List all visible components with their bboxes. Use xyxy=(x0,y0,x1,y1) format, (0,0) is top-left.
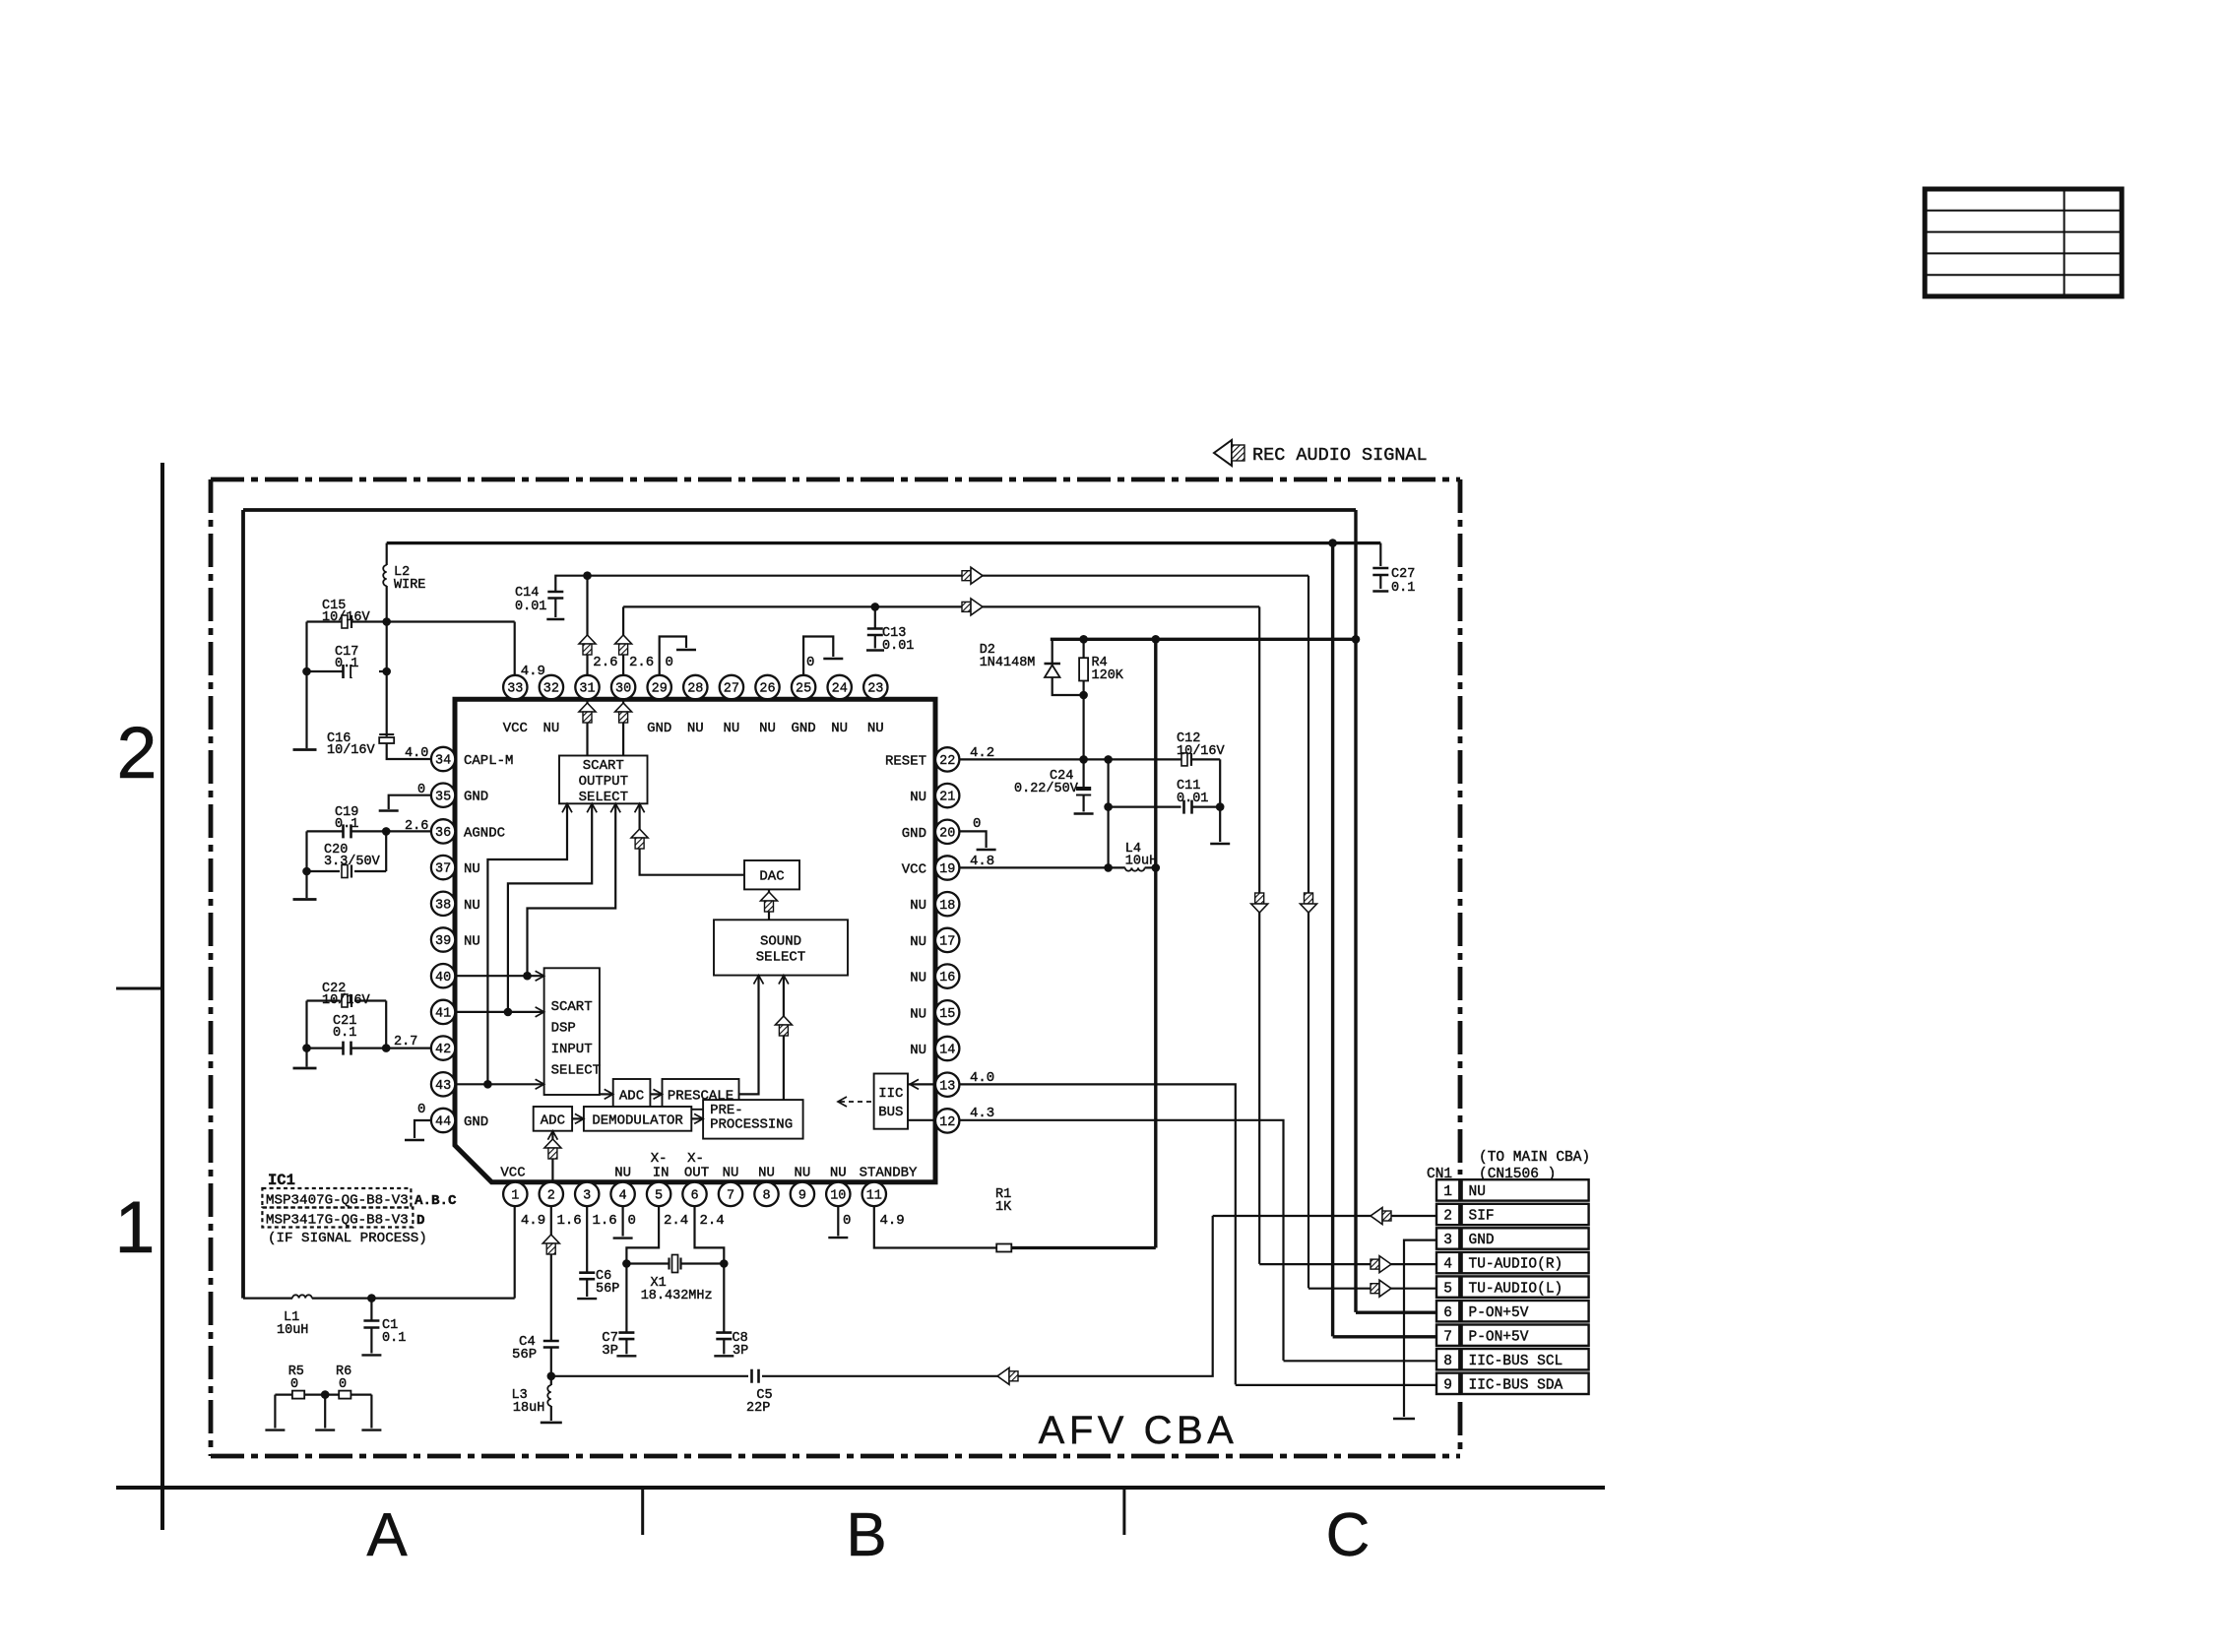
svg-text:4.8: 4.8 xyxy=(970,854,994,869)
svg-text:0: 0 xyxy=(417,783,425,797)
wire DAC to SCART OUTPUT SELECT input 4 xyxy=(640,803,744,874)
capacitor C8 3P xyxy=(716,1264,732,1355)
pin 41 xyxy=(431,1000,455,1024)
junction C12 left xyxy=(1104,755,1113,764)
wire R5 left ground stub xyxy=(274,1395,276,1429)
wire P-ON+5V rail: left edge of loop xyxy=(241,510,245,1299)
junction D2 / R4 xyxy=(1079,691,1088,700)
connector CN1 pin 8 IIC-BUS SCL xyxy=(1436,1349,1589,1369)
pin 28 xyxy=(683,675,707,699)
capacitor C20 3.3/50V xyxy=(307,831,387,877)
capacitor C15 10/16V xyxy=(340,615,387,628)
pin 6 xyxy=(682,1182,706,1206)
wire pin42 row xyxy=(386,1047,431,1048)
svg-text:SELECT: SELECT xyxy=(551,1063,601,1079)
svg-text:3: 3 xyxy=(583,1189,591,1204)
svg-text:NU: NU xyxy=(464,861,480,877)
svg-text:4.3: 4.3 xyxy=(970,1106,994,1121)
pin 21 xyxy=(935,784,959,807)
svg-text:2: 2 xyxy=(1443,1209,1452,1225)
frame column tick between zones B and C xyxy=(1122,1488,1125,1535)
pin 34 xyxy=(431,747,455,771)
svg-text:4.9: 4.9 xyxy=(521,1213,545,1229)
block ADC (demod) xyxy=(534,1107,572,1131)
wire R5/R6 middle ground stub xyxy=(324,1395,326,1429)
svg-text:17: 17 xyxy=(939,935,955,950)
junction C20 left xyxy=(302,867,311,876)
svg-text:NU: NU xyxy=(723,1166,739,1181)
svg-text:DAC: DAC xyxy=(759,869,784,885)
connector CN1 pin 7 P-ON+5V xyxy=(1436,1325,1589,1346)
IC1 part number MSP3407G (dashed box) xyxy=(262,1188,411,1209)
ground C7 xyxy=(616,1355,636,1357)
wire pin36 AGNDC row xyxy=(386,830,431,832)
capacitor C1 0.1 xyxy=(363,1299,379,1354)
svg-text:GND: GND xyxy=(902,826,926,842)
wire CN1 pin 4 TU-AUDIO(R) xyxy=(1259,1263,1436,1265)
power arrow inside IC pin30 riser xyxy=(615,703,632,723)
ground R6 right xyxy=(361,1429,381,1430)
svg-text:IIC: IIC xyxy=(878,1086,903,1102)
signal arrow TU-AUDIO(R) at CN1 xyxy=(1371,1256,1391,1273)
svg-text:4.2: 4.2 xyxy=(970,745,994,761)
wire R6 right ground stub xyxy=(370,1395,372,1429)
connector CN1 pin 1 NU xyxy=(1436,1179,1589,1200)
pin 8 xyxy=(754,1182,778,1206)
wire TU-AUDIO(R) vertical to CN1 pin 4 xyxy=(1258,606,1260,1264)
power arrow inside IC pin31 riser xyxy=(579,703,596,723)
ground pin 29 xyxy=(676,649,696,651)
svg-text:NU: NU xyxy=(910,971,926,986)
wire pin 12 to CN1 pin 8 (IIC-BUS SCL) xyxy=(959,1120,1283,1361)
ground C19 C20 xyxy=(293,898,317,901)
svg-text:SCART: SCART xyxy=(551,999,593,1015)
svg-text:120K: 120K xyxy=(1092,668,1124,683)
svg-text:10/16V: 10/16V xyxy=(1177,744,1226,759)
ground C24 xyxy=(1074,812,1094,814)
wire P-ON+5V vertical to CN1 pin 7 xyxy=(1331,543,1334,1337)
inductor L3 18uH xyxy=(547,1376,551,1421)
capacitor C22 10/16V xyxy=(307,994,387,1048)
svg-text:2: 2 xyxy=(116,712,157,794)
svg-text:C14: C14 xyxy=(515,586,539,601)
capacitor C7 3P xyxy=(618,1264,634,1355)
svg-text:37: 37 xyxy=(435,862,451,877)
svg-text:34: 34 xyxy=(435,754,451,769)
svg-text:6: 6 xyxy=(1443,1305,1452,1321)
pin 18 xyxy=(935,892,959,916)
svg-text:0.01: 0.01 xyxy=(1177,792,1208,806)
svg-text:41: 41 xyxy=(435,1007,451,1022)
svg-text:3P: 3P xyxy=(602,1343,618,1359)
capacitor C21 0.1 xyxy=(307,1042,387,1055)
svg-text:5: 5 xyxy=(1443,1281,1452,1297)
pin 16 xyxy=(935,964,959,987)
wire P-ON+5V rail: top edge of loop xyxy=(243,508,1356,512)
junction C4 / L3 / SIF wire xyxy=(547,1372,556,1381)
svg-text:35: 35 xyxy=(435,790,451,804)
svg-text:1: 1 xyxy=(114,1186,155,1268)
svg-text:21: 21 xyxy=(939,791,955,805)
svg-text:WIRE: WIRE xyxy=(394,578,425,593)
signal arrow on TU-AUDIO(L) wire xyxy=(962,567,983,584)
pin 9 xyxy=(791,1182,814,1206)
wire SOUND SELECT to DAC xyxy=(768,889,770,920)
svg-text:AFV CBA: AFV CBA xyxy=(1039,1409,1239,1452)
wire pin 5 X-IN to crystal xyxy=(626,1206,659,1263)
power arrow PRE-PROCESSING to SOUND SELECT xyxy=(775,1016,792,1036)
svg-text:4.0: 4.0 xyxy=(405,746,428,761)
pin 13 xyxy=(935,1073,959,1097)
svg-text:1K: 1K xyxy=(995,1200,1012,1215)
svg-text:38: 38 xyxy=(435,898,451,913)
wire pin 35 GND bracket xyxy=(389,795,431,809)
wire C21/C22 ground stem xyxy=(305,1048,307,1067)
svg-text:4.0: 4.0 xyxy=(970,1070,994,1086)
svg-text:NU: NU xyxy=(1469,1184,1486,1200)
svg-text:0: 0 xyxy=(417,1102,425,1117)
ground R5 left xyxy=(265,1429,285,1430)
svg-text:0: 0 xyxy=(843,1213,851,1229)
resistor R5 0 xyxy=(292,1391,304,1399)
svg-text:7: 7 xyxy=(727,1189,734,1204)
pin 12 xyxy=(935,1109,959,1132)
svg-text:10/16V: 10/16V xyxy=(322,610,371,625)
svg-text:11: 11 xyxy=(866,1189,882,1204)
svg-text:36: 36 xyxy=(435,826,451,841)
junction pin43 wire xyxy=(483,1080,492,1089)
capacitor C24 0.22/50V xyxy=(1076,759,1091,811)
wire pin 30 net vertical xyxy=(622,606,624,675)
svg-text:RESET: RESET xyxy=(885,753,926,769)
wire C16 to pin 34 xyxy=(387,743,431,759)
svg-text:NU: NU xyxy=(910,1006,926,1022)
svg-text:8: 8 xyxy=(762,1189,770,1204)
capacitor C4 56P xyxy=(543,1341,559,1376)
svg-text:0: 0 xyxy=(290,1377,298,1392)
wire pin 2 down to C4 xyxy=(550,1206,552,1341)
svg-text:18.432MHz: 18.432MHz xyxy=(641,1289,713,1303)
svg-text:10/16V: 10/16V xyxy=(322,993,371,1008)
wire L1 to pin1 riser xyxy=(312,1297,515,1299)
svg-text:IC1: IC1 xyxy=(268,1172,295,1189)
wire pin 20 GND bracket xyxy=(959,831,986,848)
svg-text:GND: GND xyxy=(1469,1233,1495,1248)
svg-text:NU: NU xyxy=(910,934,926,950)
svg-text:0: 0 xyxy=(339,1377,347,1392)
wire +5V vertical branch to R1 xyxy=(1154,639,1157,1247)
signal arrow down TU-AUDIO(R) xyxy=(1251,893,1268,913)
svg-text:39: 39 xyxy=(435,934,451,949)
svg-text:14: 14 xyxy=(939,1044,955,1058)
junction R4 / +5V rail xyxy=(1079,635,1088,644)
wire PRE-PROCESSING to SOUND SELECT xyxy=(783,976,785,1101)
svg-text:0.01: 0.01 xyxy=(882,639,914,654)
svg-text:IIC-BUS SCL: IIC-BUS SCL xyxy=(1469,1354,1563,1369)
svg-text:43: 43 xyxy=(435,1079,451,1094)
pin 40 xyxy=(431,964,455,987)
capacitor C19 0.1 xyxy=(307,824,387,838)
block SOUND SELECT xyxy=(714,920,848,975)
svg-text:6: 6 xyxy=(690,1189,698,1204)
svg-text:10/16V: 10/16V xyxy=(327,743,376,758)
wire VCC rail after L2 (to C27 and CN1 pin 7) xyxy=(387,541,1381,544)
svg-text:33: 33 xyxy=(507,682,523,697)
svg-text:MSP3407G-QG-B8-V3: MSP3407G-QG-B8-V3 xyxy=(266,1193,409,1209)
wire L2 node down past C15 C17 to C16 xyxy=(386,622,388,737)
svg-text:OUT: OUT xyxy=(684,1166,709,1181)
svg-text:22P: 22P xyxy=(746,1401,770,1416)
wire CN1 pin 6 P-ON+5V xyxy=(1356,1310,1436,1313)
wire IIC BUS dashed arrow xyxy=(840,1101,874,1103)
wire C15 row to pin 33 riser xyxy=(387,620,515,622)
ground pin 25 xyxy=(823,658,843,660)
svg-text:NU: NU xyxy=(867,721,884,736)
svg-text:TU-AUDIO(L): TU-AUDIO(L) xyxy=(1469,1281,1563,1297)
capacitor C17 0.1 xyxy=(344,665,380,678)
wire pin 10 stub xyxy=(837,1206,839,1236)
junction C11 right xyxy=(1216,802,1225,811)
block SCART DSP INPUT SELECT xyxy=(544,968,601,1095)
frame column tick between zones A and B xyxy=(641,1488,644,1535)
svg-text:2.6: 2.6 xyxy=(629,655,654,670)
wire C12/C11 left vertical xyxy=(1107,759,1109,867)
junction R4 / RESET xyxy=(1079,755,1088,764)
block PRE-PROCESSING xyxy=(703,1100,803,1139)
ground C11 C12 xyxy=(1210,843,1230,845)
wire pin 40 into SCART DSP INPUT SELECT xyxy=(455,975,544,977)
capacitor C16 10/16V xyxy=(379,734,394,743)
wire R5/R6 row xyxy=(275,1393,339,1395)
svg-text:10uH: 10uH xyxy=(277,1323,308,1338)
wire pin 29 ground bracket xyxy=(660,637,686,676)
svg-text:NU: NU xyxy=(723,721,739,736)
wire pin 3 down to C6 xyxy=(586,1206,588,1273)
pin 33 xyxy=(503,675,527,699)
ground C13 xyxy=(866,649,884,651)
wire ADC(demod) down to pin 2 xyxy=(551,1131,553,1182)
capacitor C5 22P xyxy=(748,1368,762,1384)
pin 11 xyxy=(862,1182,886,1206)
wire C15/C17 left vertical to ground xyxy=(305,622,307,749)
inductor L4 10uH xyxy=(1125,867,1156,870)
diode D2 1N4148M xyxy=(1045,639,1084,695)
svg-text:(IF SIGNAL PROCESS): (IF SIGNAL PROCESS) xyxy=(268,1231,427,1246)
wire pin 13 to CN1 pin 9 (IIC-BUS SDA) xyxy=(959,1084,1235,1384)
capacitor C14 0.01 xyxy=(547,592,563,617)
resistor R6 0 xyxy=(339,1391,351,1399)
svg-text:NU: NU xyxy=(830,1166,847,1181)
svg-text:NU: NU xyxy=(794,1166,810,1181)
junction pin19 / C11 branch xyxy=(1104,863,1113,872)
svg-text:SCART: SCART xyxy=(583,758,624,774)
ground C21 C22 xyxy=(293,1067,317,1070)
svg-text:SELECT: SELECT xyxy=(579,790,628,805)
wire pin 11 STANDBY down xyxy=(874,1206,996,1247)
pin 19 xyxy=(935,856,959,879)
junction +5V rail / loop vertical xyxy=(1352,635,1361,644)
svg-text:30: 30 xyxy=(615,682,631,697)
svg-text:0.1: 0.1 xyxy=(335,657,358,671)
ground pin 35 xyxy=(379,809,399,811)
svg-text:2.6: 2.6 xyxy=(593,655,617,670)
pin 20 xyxy=(935,820,959,844)
ground pin 4 xyxy=(613,1237,633,1239)
svg-text:AGNDC: AGNDC xyxy=(464,825,505,841)
connector CN1 pin 4 TU-AUDIO(R) xyxy=(1436,1252,1589,1273)
power arrow below pin 2 xyxy=(542,1235,559,1254)
pin 29 xyxy=(648,675,671,699)
svg-text:GND: GND xyxy=(791,721,815,736)
svg-text:REC AUDIO SIGNAL: REC AUDIO SIGNAL xyxy=(1252,445,1428,466)
svg-text:10uH: 10uH xyxy=(1125,855,1157,869)
wire pin 12 to IIC BUS xyxy=(908,1119,935,1121)
svg-text:26: 26 xyxy=(759,682,775,697)
wire pin 44 GND bracket xyxy=(415,1120,431,1138)
junction C13 xyxy=(871,603,880,611)
svg-text:MSP3417G-QG-B8-V3: MSP3417G-QG-B8-V3 xyxy=(266,1213,409,1229)
svg-text:27: 27 xyxy=(724,682,739,697)
capacitor C27 0.1 xyxy=(1372,543,1388,589)
svg-text:0.1: 0.1 xyxy=(1391,581,1415,596)
pin 7 xyxy=(719,1182,742,1206)
wire pin 4 ground stub xyxy=(621,1206,623,1237)
pin 14 xyxy=(935,1037,959,1060)
pin 30 xyxy=(611,675,635,699)
wire ADC to DEMODULATOR xyxy=(572,1117,584,1119)
wire ADC to PRESCALE xyxy=(650,1093,662,1095)
svg-text:3.3/50V: 3.3/50V xyxy=(324,855,381,869)
svg-text:1N4148M: 1N4148M xyxy=(980,656,1036,670)
junction C19 right xyxy=(382,827,391,836)
svg-text:2.4: 2.4 xyxy=(664,1213,688,1229)
svg-text:13: 13 xyxy=(939,1079,955,1094)
svg-text:P-ON+5V: P-ON+5V xyxy=(1469,1305,1529,1321)
svg-text:A: A xyxy=(366,1501,408,1569)
wire loop bottom run to pin 1 xyxy=(243,1297,292,1299)
pin 17 xyxy=(935,928,959,952)
svg-text:32: 32 xyxy=(543,682,559,697)
ground C1 xyxy=(361,1354,381,1356)
wire TU-AUDIO(L) vertical to CN1 pin 5 xyxy=(1308,576,1309,1289)
svg-text:56P: 56P xyxy=(512,1347,537,1363)
pin 42 xyxy=(431,1036,455,1059)
pin 43 xyxy=(431,1072,455,1096)
svg-text:NU: NU xyxy=(831,721,848,736)
svg-text:15: 15 xyxy=(939,1007,955,1022)
pin 32 xyxy=(540,675,563,699)
svg-text:C27: C27 xyxy=(1391,567,1415,582)
power arrow above pin 30 xyxy=(615,635,632,655)
svg-text:VCC: VCC xyxy=(500,1166,525,1181)
svg-text:28: 28 xyxy=(687,682,703,697)
svg-text:ADC: ADC xyxy=(541,1112,565,1128)
svg-text:9: 9 xyxy=(1443,1378,1452,1394)
svg-text:10: 10 xyxy=(830,1189,846,1204)
inductor L1 10uH xyxy=(292,1295,312,1298)
wire pin 22 RESET row xyxy=(959,758,1220,760)
crystal X1 18.432MHz xyxy=(626,1255,724,1273)
wire pin43 branch to SCART OUTPUT SELECT input 1 xyxy=(487,803,567,1084)
svg-text:7: 7 xyxy=(1443,1329,1452,1345)
svg-text:31: 31 xyxy=(579,682,595,697)
wire DEMODULATOR to PRE-PROCESSING xyxy=(691,1117,703,1119)
ground R5 R6 middle xyxy=(315,1429,335,1430)
svg-text:18uH: 18uH xyxy=(513,1401,544,1416)
pin 22 xyxy=(935,747,959,771)
connector CN1 pin 6 P-ON+5V xyxy=(1436,1301,1589,1321)
svg-text:NU: NU xyxy=(758,1166,775,1181)
ground CN1 pin 3 xyxy=(1393,1418,1415,1421)
capacitor C11 0.01 xyxy=(1109,800,1221,814)
svg-text:0.1: 0.1 xyxy=(333,1026,356,1041)
power arrow on DAC-SCART wire xyxy=(631,829,648,849)
junction VCC rail / pin7 feed xyxy=(1328,539,1337,547)
svg-text:NU: NU xyxy=(910,790,926,805)
svg-text:16: 16 xyxy=(939,971,955,985)
svg-text:SIF: SIF xyxy=(1469,1209,1495,1225)
svg-text:PROCESSING: PROCESSING xyxy=(710,1117,793,1133)
svg-text:NU: NU xyxy=(910,1043,926,1058)
wire pin 31 to C14 net xyxy=(586,576,588,675)
svg-text:23: 23 xyxy=(867,682,883,697)
pin 2 xyxy=(540,1182,563,1206)
pin 38 xyxy=(431,892,455,916)
svg-text:9: 9 xyxy=(798,1189,806,1204)
connector CN1 pin 2 SIF xyxy=(1436,1204,1589,1225)
pin 15 xyxy=(935,1000,959,1024)
wire PRESCALE to SOUND SELECT xyxy=(739,976,759,1095)
wire pin 1 riser xyxy=(514,1206,516,1299)
wire +5V horizontal rail to D2 R4 R1 xyxy=(1051,638,1356,641)
ground C15 C17 xyxy=(293,748,317,751)
block SCART OUTPUT SELECT xyxy=(559,756,648,805)
wire pin31 net to TU-AUDIO(L): C14 corner xyxy=(555,576,1308,592)
junction C21 right xyxy=(382,1044,391,1052)
svg-text:3P: 3P xyxy=(733,1344,748,1359)
block ADC (scart) xyxy=(613,1079,651,1110)
svg-text:2: 2 xyxy=(547,1189,555,1204)
wire pin41 branch to SCART OUTPUT SELECT input 2 xyxy=(508,803,592,1012)
svg-text:0: 0 xyxy=(628,1213,636,1229)
pin 39 xyxy=(431,927,455,951)
svg-text:8: 8 xyxy=(1443,1354,1452,1369)
signal arrow on TU-AUDIO(R) wire xyxy=(962,599,983,615)
svg-text:IN: IN xyxy=(653,1166,670,1181)
connector CN1 pin 3 GND xyxy=(1436,1228,1589,1248)
drawing frame left border line xyxy=(160,463,164,1530)
ground C14 xyxy=(546,618,564,620)
signal arrow SIF at CN1 xyxy=(1371,1208,1391,1225)
pin 24 xyxy=(828,675,852,699)
wire pin 41 into SCART DSP INPUT SELECT xyxy=(455,1011,544,1013)
svg-text:0.1: 0.1 xyxy=(382,1331,406,1346)
wire SIF net: C4 junction to CN1 riser xyxy=(551,1216,1213,1376)
pin 36 xyxy=(431,819,455,843)
pin 10 xyxy=(826,1182,850,1206)
svg-text:20: 20 xyxy=(939,826,955,841)
IC1 MSP3407G body outline xyxy=(455,699,935,1181)
junction C15 right xyxy=(382,617,391,626)
svg-text:2.4: 2.4 xyxy=(700,1213,725,1229)
wire pin 43 into SCART DSP INPUT SELECT xyxy=(455,1083,544,1085)
IC1 part number MSP3417G (dashed box) xyxy=(262,1208,413,1229)
wire pin 13 to IIC BUS xyxy=(908,1083,935,1085)
svg-text:29: 29 xyxy=(652,682,668,697)
inductor L2 WIRE xyxy=(383,543,386,622)
block IIC BUS xyxy=(874,1074,908,1129)
signal arrow down TU-AUDIO(L) xyxy=(1301,893,1317,913)
